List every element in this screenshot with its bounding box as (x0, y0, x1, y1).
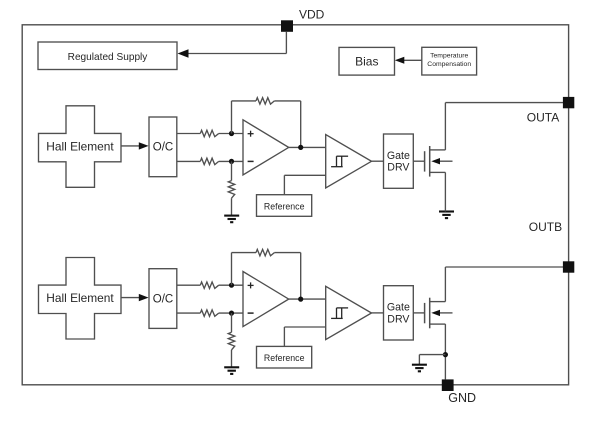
ground under QA source (439, 210, 454, 212)
resistor R2A (200, 158, 218, 164)
wire R2B to op-amp - input (219, 312, 243, 314)
wire feedback down to output node (300, 101, 302, 147)
wire gate driver to mosfet gate (413, 312, 424, 314)
wire temp comp to bias (404, 59, 422, 61)
temperature compensation block (422, 47, 477, 75)
svg-text:Bias: Bias (355, 55, 378, 69)
svg-text:Gate: Gate (387, 302, 410, 314)
op-amp - pin mark (248, 312, 254, 314)
wire reference to schmitt lower input (284, 326, 325, 328)
hall element HB (cross plate) (39, 258, 122, 340)
hysteresis mark (331, 166, 343, 168)
wire - node down to R4B (231, 313, 233, 332)
schmitt trigger U2A (326, 135, 372, 188)
pin OUTA (pad square) (563, 97, 574, 108)
svg-text:Hall Element: Hall Element (46, 139, 114, 153)
resistor R3B feedback (256, 249, 274, 255)
wire schmitt to gate driver (372, 312, 384, 314)
wire schmitt to gate driver (372, 160, 384, 162)
junction node - input A (229, 159, 234, 164)
wire O/C to R2A (177, 160, 201, 162)
resistor R3A feedback (256, 98, 274, 104)
svg-text:Regulated Supply: Regulated Supply (68, 52, 149, 63)
resistor R4B (228, 332, 234, 350)
wire ground stub down (418, 355, 420, 365)
wire feedback up from + node (231, 253, 233, 286)
junction node source B (443, 352, 448, 357)
outer IC boundary (22, 25, 568, 385)
pin GND (pad square) (442, 379, 454, 391)
svg-text:Temperature: Temperature (430, 53, 468, 60)
wire to regulated supply (189, 53, 287, 55)
transistor QB body arrow (440, 312, 453, 314)
transistor QA body arrow (440, 160, 453, 162)
op-amp U1B (243, 272, 289, 327)
pin OUTB (pad square) (563, 261, 574, 272)
wire feedback up from + node (231, 101, 233, 134)
wire to OUTA pin (445, 102, 563, 104)
wire source lead (430, 171, 446, 173)
svg-text:VDD: VDD (299, 8, 325, 22)
wire O/C to R1A (177, 133, 201, 135)
svg-text:GND: GND (448, 391, 476, 405)
ground near GND pin (412, 364, 427, 366)
wire op-amp output to schmitt (289, 298, 326, 300)
wire source lead (430, 323, 446, 325)
wire gate driver to mosfet gate (413, 160, 424, 162)
transistor QB channel bar (429, 298, 431, 329)
resistor R4A (228, 181, 234, 199)
wire O/C to R2B (177, 312, 201, 314)
resistor R1A (200, 130, 218, 136)
svg-text:Hall Element: Hall Element (46, 291, 114, 305)
wire hall to O/C with arrow (121, 145, 141, 147)
op-amp + pin mark (248, 133, 254, 135)
gate driver block B (384, 286, 414, 340)
op-amp U1A (243, 120, 289, 175)
O/C block A (149, 117, 177, 177)
wire feedback top left segment (232, 100, 257, 102)
ground under R4B (224, 366, 239, 368)
wire R4A to ground (231, 198, 233, 215)
arrowhead into bias (395, 57, 405, 64)
op-amp - pin mark (248, 160, 254, 162)
wire op-amp output to schmitt (289, 146, 326, 148)
reference block A (257, 195, 312, 217)
wire reference up (283, 175, 285, 194)
O/C block B (149, 269, 177, 329)
svg-text:OUTB: OUTB (529, 220, 562, 234)
wire junction to ground stub (419, 354, 445, 356)
svg-text:Reference: Reference (264, 353, 305, 363)
wire drain up to output (444, 103, 446, 150)
wire feedback top right segment (274, 252, 300, 254)
wire drain lead (430, 149, 446, 151)
transistor QA gate bar (424, 151, 426, 171)
wire O/C to R1B (177, 284, 201, 286)
wire reference up (283, 327, 285, 346)
svg-text:O/C: O/C (153, 293, 173, 305)
svg-text:Compensation: Compensation (427, 61, 471, 68)
gate driver block A (384, 134, 414, 188)
junction node + input B (229, 283, 234, 288)
resistor R1B (200, 282, 218, 288)
op-amp + pin mark (248, 284, 254, 286)
wire QA source to ground (444, 172, 446, 211)
svg-text:DRV: DRV (387, 162, 410, 174)
wire hall to O/C with arrow (121, 297, 141, 299)
svg-text:Gate: Gate (387, 150, 410, 162)
wire R4B to ground (231, 350, 233, 367)
wire R1B to op-amp + input (219, 284, 243, 286)
wire QB source down (444, 324, 446, 379)
junction node + input A (229, 131, 234, 136)
wire - node down to R4A (231, 161, 233, 180)
svg-text:DRV: DRV (387, 313, 410, 325)
hysteresis mark (331, 317, 343, 319)
wire to OUTB pin (445, 266, 563, 268)
wire R1A to op-amp + input (219, 133, 243, 135)
hall element HA (cross plate) (39, 106, 122, 188)
svg-text:Reference: Reference (264, 201, 305, 211)
junction node op-amp output B (298, 297, 303, 302)
resistor R2B (200, 310, 218, 316)
wire drain lead (430, 301, 446, 303)
reference block B (257, 346, 312, 368)
transistor QB gate bar (424, 303, 426, 323)
wire feedback down to output node (300, 253, 302, 300)
bias block (339, 47, 395, 75)
svg-text:O/C: O/C (153, 142, 173, 154)
ground under R4A (224, 215, 239, 217)
transistor QA channel bar (429, 146, 431, 177)
regulated supply block (38, 42, 177, 70)
junction node - input B (229, 311, 234, 316)
wire reference to schmitt lower input (284, 174, 325, 176)
svg-text:OUTA: OUTA (527, 110, 559, 124)
schmitt trigger U2B (326, 286, 372, 339)
junction node op-amp output A (298, 145, 303, 150)
pin VDD (pad square) (281, 20, 293, 32)
arrowhead into regulated supply (178, 49, 189, 57)
wire feedback top left segment (232, 252, 257, 254)
wire R2A to op-amp - input (219, 160, 243, 162)
wire drain up to output (444, 267, 446, 302)
wire VDD down to supply arrow (285, 32, 287, 54)
wire feedback top right segment (274, 100, 300, 102)
